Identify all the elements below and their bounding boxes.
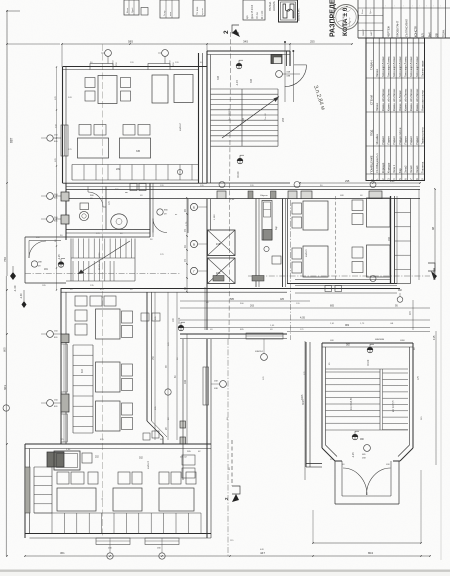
svg-text:Коридор: Коридор <box>381 162 385 173</box>
svg-text:СЪГЛАСУВАЛ: СЪГЛАСУВАЛ <box>404 19 408 37</box>
svg-text:РАЗПРЕДЕЛ: РАЗПРЕДЕЛ <box>330 0 337 37</box>
svg-text:295: 295 <box>390 179 395 183</box>
svg-text:98: 98 <box>431 226 435 230</box>
svg-text:±0,00: ±0,00 <box>178 317 181 324</box>
svg-text:Гипсокарт.Латекс: Гипсокарт.Латекс <box>398 56 402 77</box>
svg-text:982: 982 <box>345 324 350 327</box>
svg-text:кухня: кухня <box>262 195 268 197</box>
svg-text:ВиК: ВиК <box>427 32 431 37</box>
svg-text:Бар: Бар <box>398 168 402 173</box>
svg-text:295: 295 <box>282 117 285 122</box>
svg-text:GB: GB <box>390 323 394 325</box>
svg-text:Гипсокарт.Латекс: Гипсокарт.Латекс <box>381 56 385 77</box>
svg-text:арх.: арх. <box>247 14 249 19</box>
svg-text:Камен. обл.Латекс: Камен. обл.Латекс <box>392 88 396 111</box>
svg-text:345: 345 <box>136 150 141 153</box>
svg-text:Паркет: Паркет <box>409 135 413 144</box>
svg-text:06.2м: 06.2м <box>255 12 259 19</box>
svg-text:345: 345 <box>242 117 245 122</box>
svg-text:260: 260 <box>388 236 391 241</box>
svg-text:038/051: 038/051 <box>255 351 264 353</box>
svg-text:ОВ: ОВ <box>434 33 438 37</box>
svg-text:ПРОЕКТАНТ: ПРОЕКТАНТ <box>395 20 399 37</box>
svg-text:+0,50: +0,50 <box>170 60 172 66</box>
svg-text:Камен. обл.Латекс: Камен. обл.Латекс <box>403 88 407 111</box>
svg-text:ЧАСТ: ЧАСТ <box>370 30 373 36</box>
svg-text:209: 209 <box>116 168 121 171</box>
svg-text:Гипсокарт.Латекс: Гипсокарт.Латекс <box>386 56 390 77</box>
svg-text:-1.30: -1.30 <box>20 293 23 299</box>
svg-text:2: 2 <box>223 30 230 34</box>
svg-text:Одоб: Одоб <box>132 7 134 13</box>
svg-text:644: 644 <box>81 368 84 373</box>
svg-text:Гипсокарт.Латекс: Гипсокарт.Латекс <box>403 56 407 77</box>
svg-text:ТЕХН.: ТЕХН. <box>441 29 445 37</box>
svg-text:В: В <box>193 242 195 246</box>
svg-text:Б: Б <box>193 205 195 209</box>
svg-text:Окачен таван: Окачен таван <box>420 60 424 77</box>
svg-text:ОБЕКТ: ОБЕКТ <box>363 28 365 36</box>
svg-text:295: 295 <box>345 179 350 183</box>
svg-text:Зала3: Зала3 <box>409 165 413 173</box>
svg-text:605: 605 <box>3 347 7 352</box>
svg-text:Зала4: Зала4 <box>415 165 419 173</box>
svg-text:инж: инж <box>170 12 172 16</box>
svg-text:0880: 0880 <box>400 340 406 342</box>
svg-text:804: 804 <box>368 551 373 555</box>
svg-text:СТЕНИ: СТЕНИ <box>370 95 374 105</box>
svg-text:Паркет: Паркет <box>392 135 396 144</box>
svg-text:442: 442 <box>184 379 187 384</box>
svg-text:9сп 16/26,4: 9сп 16/26,4 <box>229 108 231 120</box>
svg-text:проект: проект <box>202 8 204 15</box>
svg-text:Възл: Възл <box>127 7 129 13</box>
svg-text:зала 1: зала 1 <box>304 249 308 257</box>
svg-text:585: 585 <box>230 298 235 301</box>
svg-text:Гипсокарт.Латекс: Гипсокарт.Латекс <box>392 56 396 77</box>
svg-text:4,05: 4,05 <box>300 317 305 320</box>
svg-text:Фаянс. пл.Латекс: Фаянс. пл.Латекс <box>398 90 402 111</box>
svg-text:ТАВАН: ТАВАН <box>370 61 374 70</box>
svg-text:345: 345 <box>217 75 220 80</box>
svg-text:ПЪЛНА: ПЪЛНА <box>268 2 272 11</box>
svg-text:Латекс: Латекс <box>375 68 379 77</box>
svg-text:К1Б: К1Б <box>216 243 221 246</box>
svg-text:Теракот.плочи: Теракот.плочи <box>420 127 424 145</box>
svg-text:Мозайка: Мозайка <box>375 134 379 145</box>
svg-text:Паркет: Паркет <box>403 135 407 144</box>
svg-text:КОНСТР.: КОНСТР. <box>413 26 417 38</box>
svg-text:Паркет: Паркет <box>386 135 390 144</box>
svg-text:447: 447 <box>260 551 265 555</box>
svg-text:ПОД: ПОД <box>370 130 374 136</box>
svg-text:Паркет: Паркет <box>381 135 385 144</box>
svg-text:Тоалетна: Тоалетна <box>420 161 424 173</box>
svg-text:ЕЛ: ЕЛ <box>420 33 424 37</box>
svg-text:Камен. обл.Латекс: Камен. обл.Латекс <box>386 88 390 111</box>
svg-text:1,088: 1,088 <box>214 214 216 220</box>
svg-text:7сп 16: 7сп 16 <box>265 113 267 120</box>
svg-text:3025: 3025 <box>301 394 304 400</box>
svg-text:Зала 1: Зала 1 <box>392 164 396 173</box>
svg-text:025: 025 <box>280 298 285 301</box>
svg-text:Гл.пр: Гл.пр <box>164 10 166 16</box>
svg-text:±0.00: ±0.00 <box>236 171 240 178</box>
svg-text:Камен. обл.Латекс: Камен. обл.Латекс <box>415 88 419 111</box>
svg-text:Сп./Общ.контъл: Сп./Общ.контъл <box>375 153 379 173</box>
svg-text:Латекс: Латекс <box>375 102 379 111</box>
svg-text:зала 2: зала 2 <box>178 123 182 131</box>
svg-text:Камен. обл.Латекс: Камен. обл.Латекс <box>381 88 385 111</box>
svg-text:+0,50: +0,50 <box>113 60 115 66</box>
svg-text:КАМАРА АРХ.: КАМАРА АРХ. <box>298 7 301 21</box>
svg-text:760: 760 <box>3 257 7 262</box>
svg-text:ВНИЗ 17х17,6/29: ВНИЗ 17х17,6/29 <box>99 252 101 270</box>
svg-text:-1.15: -1.15 <box>235 80 239 86</box>
svg-text:ПОМЕЩЕНИЕ: ПОМЕЩЕНИЕ <box>370 155 374 173</box>
svg-text:585: 585 <box>128 40 133 44</box>
svg-text:Коридор: Коридор <box>386 162 390 173</box>
svg-text:345: 345 <box>250 78 253 83</box>
svg-text:Камен. обл.Латекс: Камен. обл.Латекс <box>409 88 413 111</box>
svg-text:Зала2: Зала2 <box>403 165 407 173</box>
svg-text:Гл. инж.: Гл. инж. <box>196 6 199 15</box>
svg-text:КАМАРА: КАМАРА <box>273 1 276 11</box>
svg-text:603: 603 <box>3 385 7 390</box>
svg-text:К2Б: К2Б <box>216 272 221 275</box>
svg-text:зала 4: зала 4 <box>146 461 150 469</box>
svg-text:Гипсокарт.Латекс: Гипсокарт.Латекс <box>409 56 413 77</box>
svg-text:Дата 05.2004: Дата 05.2004 <box>252 4 254 19</box>
svg-text:021 02: 021 02 <box>180 457 187 459</box>
svg-text:-1.15: -1.15 <box>58 254 61 260</box>
svg-text:263: 263 <box>250 305 255 308</box>
svg-text:361: 361 <box>60 551 65 555</box>
svg-text:088/0880: 088/0880 <box>375 339 385 341</box>
svg-text:115: 115 <box>432 335 436 340</box>
svg-text:Пардос.плочи: Пардос.плочи <box>398 127 402 144</box>
svg-text:-1.30: -1.30 <box>13 285 17 292</box>
svg-text:М 1:100: М 1:100 <box>262 10 264 19</box>
svg-text:Гипсокарт.Латекс: Гипсокарт.Латекс <box>415 56 419 77</box>
svg-text:345: 345 <box>243 40 248 44</box>
svg-text:2сп 30х6,56: 2сп 30х6,56 <box>351 397 353 410</box>
svg-text:805: 805 <box>330 305 335 308</box>
svg-text:-1.15: -1.15 <box>352 452 355 458</box>
svg-text:Данг г.тодев: Данг г.тодев <box>342 13 345 27</box>
svg-text:255: 255 <box>310 40 315 44</box>
svg-text:Паркет: Паркет <box>415 135 419 144</box>
svg-text:687: 687 <box>10 137 14 143</box>
svg-text:Фаянсови плочки: Фаянсови плочки <box>420 90 424 111</box>
svg-text:±0.00: ±0.00 <box>367 359 370 366</box>
svg-text:ЧЕРТЕЖ: ЧЕРТЕЖ <box>386 25 390 37</box>
svg-text:вст 2х0,5,5: вст 2х0,5,5 <box>393 400 395 412</box>
